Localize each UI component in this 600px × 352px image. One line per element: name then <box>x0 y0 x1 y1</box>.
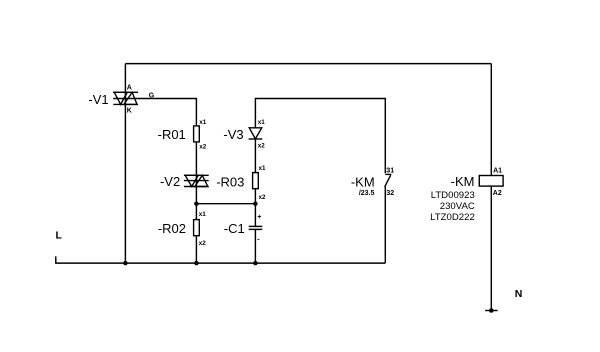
svg-text:-R03: -R03 <box>216 175 244 190</box>
svg-text:-R01: -R01 <box>158 127 186 142</box>
wire middle node horizontal <box>196 203 255 205</box>
NC contact KM 31-32 <box>385 174 392 186</box>
diac V2 <box>184 175 209 186</box>
svg-text:G: G <box>149 92 155 99</box>
svg-text:LTD00923: LTD00923 <box>431 190 475 201</box>
junction dot node left <box>194 201 199 206</box>
svg-text:x1: x1 <box>259 165 267 172</box>
junction dot V1 bottom <box>123 261 128 266</box>
wire coil to N terminal <box>490 186 492 310</box>
svg-text:-V3: -V3 <box>223 127 243 142</box>
svg-text:A2: A2 <box>493 190 502 197</box>
resistor R02 <box>194 220 200 236</box>
svg-text:32: 32 <box>386 190 394 197</box>
wire R02 to bottom rail <box>195 236 197 263</box>
wire C1 to bottom rail <box>254 229 256 263</box>
svg-text:31: 31 <box>386 167 394 174</box>
svg-text:x2: x2 <box>259 194 267 201</box>
svg-text:-KM: -KM <box>351 174 375 189</box>
svg-text:-V1: -V1 <box>88 92 108 107</box>
terminal N tick <box>485 310 497 312</box>
svg-text:/23.5: /23.5 <box>359 190 375 197</box>
wire V3 to R03 <box>254 139 256 173</box>
svg-text:A: A <box>127 84 132 91</box>
triac V1 <box>113 92 138 104</box>
wire V2 to R02 <box>195 187 197 220</box>
svg-text:-: - <box>257 237 260 244</box>
junction dot node right <box>253 201 258 206</box>
svg-text:x2: x2 <box>199 143 207 150</box>
wire top horizontal rail <box>125 63 491 65</box>
wire V2 symbol crossing <box>195 175 197 186</box>
svg-text:x1: x1 <box>199 211 207 218</box>
svg-text:A1: A1 <box>493 167 502 174</box>
junction dot R02 bottom <box>194 261 199 266</box>
svg-text:-C1: -C1 <box>224 221 245 236</box>
diode V3 <box>249 128 263 139</box>
svg-text:230VAC: 230VAC <box>440 201 475 212</box>
svg-text:x2: x2 <box>199 240 207 247</box>
svg-text:L: L <box>56 229 63 241</box>
wire R03 to node <box>254 189 256 227</box>
wire relay branch upper <box>490 64 492 176</box>
wire V1 branch vertical <box>124 64 126 264</box>
capacitor C1 plates <box>249 226 263 229</box>
wire V3 branch top horizontal <box>255 99 385 174</box>
svg-text:K: K <box>127 108 132 115</box>
junction dot C1 bottom <box>253 261 258 266</box>
svg-text:x2: x2 <box>258 143 266 150</box>
svg-text:+: + <box>257 214 261 221</box>
svg-text:-V2: -V2 <box>160 174 180 189</box>
svg-text:-KM: -KM <box>451 174 475 189</box>
wire bottom L rail with start tick <box>56 256 386 263</box>
svg-text:N: N <box>515 288 523 300</box>
wire R01 to V2 <box>195 142 197 175</box>
resistor R01 <box>194 126 200 142</box>
relay coil KM <box>479 176 503 187</box>
terminal dot N <box>489 308 494 313</box>
svg-text:x1: x1 <box>199 119 207 126</box>
wire gate G to R01 <box>113 99 196 126</box>
wire contact to bottom rail <box>384 187 386 264</box>
svg-text:x1: x1 <box>258 119 266 126</box>
svg-text:-R02: -R02 <box>158 221 186 236</box>
resistor R03 <box>253 173 259 189</box>
svg-text:LTZ0D222: LTZ0D222 <box>430 212 475 223</box>
